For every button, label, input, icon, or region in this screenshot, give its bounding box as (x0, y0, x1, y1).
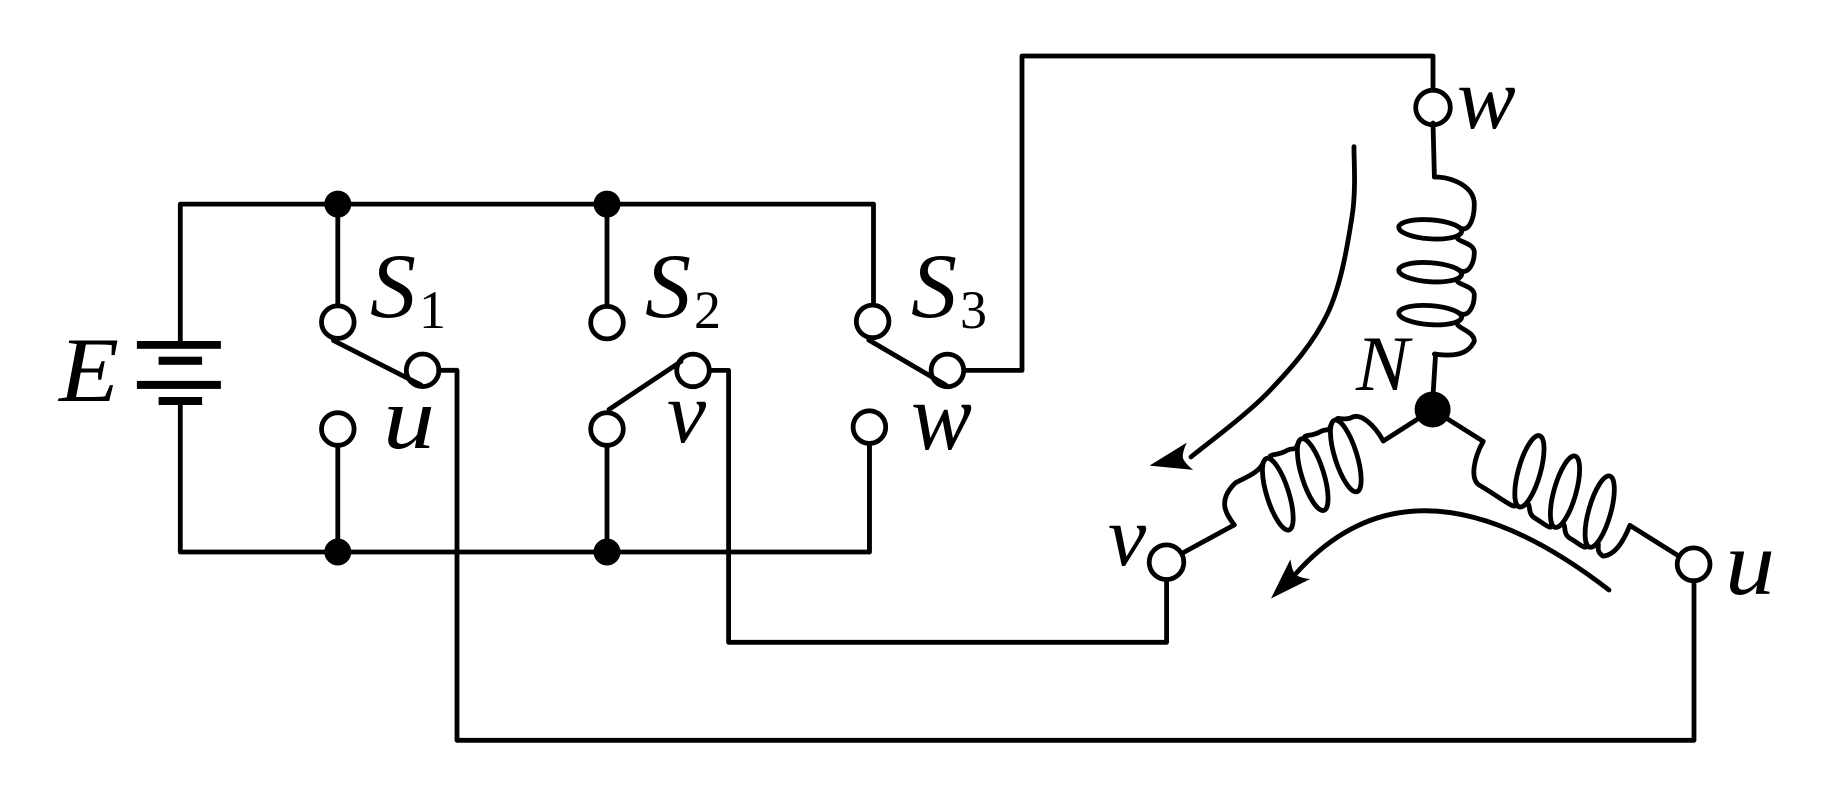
switch S1 pole contact (322, 306, 355, 339)
switch S2 blade (609, 362, 681, 410)
arrowhead lower (1261, 559, 1310, 608)
svg-text:3: 3 (960, 280, 987, 340)
switch S2 lower contact (591, 413, 624, 446)
junction dot bottom-mid (594, 539, 621, 566)
switch S1 throw contact (to u) (406, 354, 439, 387)
svg-text:1: 1 (419, 280, 446, 340)
switch S3 throw contact (to w) (931, 354, 964, 387)
wire: v coil to v terminal (1167, 525, 1235, 562)
wire: S2 throw to motor v terminal (711, 370, 1167, 642)
switch S2 throw contact (to v) (677, 354, 710, 387)
wire: battery top to top rail bus (180, 204, 873, 341)
switch S1 blade (334, 341, 422, 386)
switch S1 top stub (335, 204, 340, 306)
wire: N to u coil (1433, 410, 1484, 442)
svg-text:w: w (1457, 51, 1516, 148)
wire: u coil to u terminal (1630, 525, 1693, 565)
switch S1 bottom stub (335, 445, 340, 552)
junction dot bottom-left (324, 539, 351, 566)
svg-text:N: N (1355, 320, 1413, 407)
svg-text:S: S (370, 235, 416, 337)
switch S2 pole contact (591, 306, 624, 339)
wire: S3 throw to motor w terminal (top route) (965, 56, 1433, 370)
rotation arrow lower arc (1296, 511, 1609, 590)
svg-text:u: u (383, 370, 435, 468)
coil u phase (1474, 441, 1630, 556)
svg-text:u: u (1725, 512, 1775, 614)
wire: N to v coil (1383, 410, 1432, 442)
switch S1 lower contact (322, 413, 355, 446)
motor terminal u circle (1677, 548, 1710, 581)
switch S3 blade (869, 340, 946, 385)
coil v phase (1225, 416, 1384, 525)
svg-text:v: v (667, 365, 707, 462)
junction dot top-mid (594, 191, 621, 218)
rotation arrow upper arc (1191, 147, 1355, 457)
svg-text:E: E (57, 319, 119, 421)
node N dot (1415, 392, 1451, 428)
switch S3 bottom stub (867, 445, 872, 552)
battery E plates (137, 341, 221, 405)
wire: battery bottom to bottom rail bus (180, 405, 869, 552)
motor terminal w circle (1416, 90, 1451, 125)
switch S3 pole contact (856, 305, 889, 338)
coil w phase (1434, 177, 1474, 355)
wire: w coil to node N (1433, 354, 1436, 402)
motor terminal v circle (1149, 545, 1184, 580)
svg-text:S: S (645, 235, 691, 337)
svg-text:v: v (1108, 488, 1147, 584)
switch S2 bottom stub (605, 445, 610, 552)
wire: w terminal to w coil (1433, 123, 1434, 177)
arrowhead upper (1146, 443, 1193, 480)
svg-text:S: S (911, 235, 957, 337)
wire: S1 throw to motor u terminal (439, 370, 1694, 740)
svg-text:2: 2 (694, 280, 721, 340)
junction dot top-left (324, 191, 351, 218)
switch S2 top stub (605, 204, 610, 305)
switch S3 lower contact (853, 411, 886, 444)
svg-text:w: w (911, 363, 972, 470)
